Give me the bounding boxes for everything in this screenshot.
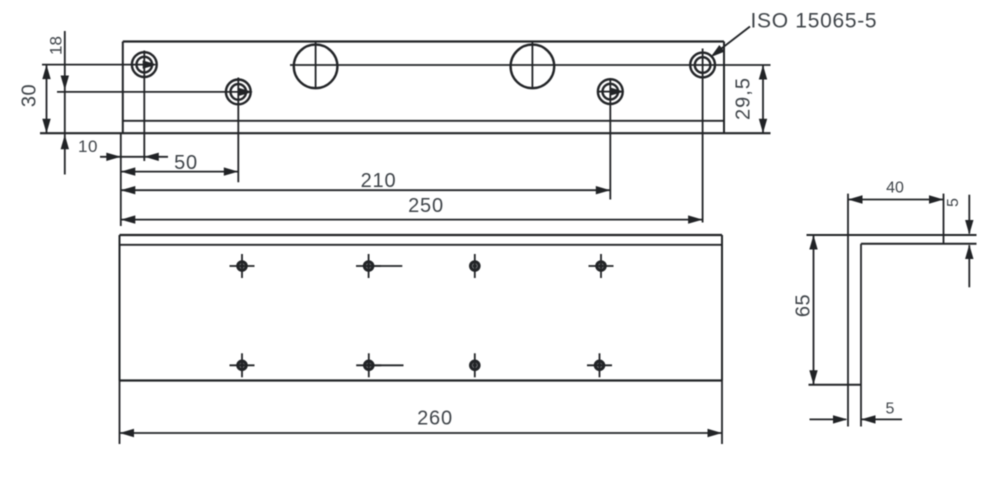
flange bottom line <box>861 243 977 245</box>
flange end vertical <box>943 194 945 244</box>
big hole B2 <box>511 41 555 89</box>
svg-text:65: 65 <box>793 294 815 317</box>
dim 250 line <box>121 219 703 221</box>
hole row 2 leader line <box>57 91 239 93</box>
svg-text:260: 260 <box>417 408 453 430</box>
svg-text:50: 50 <box>174 152 198 174</box>
hole row 2 leader arrow <box>238 88 253 96</box>
svg-text:10: 10 <box>78 137 98 156</box>
svg-text:5: 5 <box>945 198 962 207</box>
dim 30 up arrow <box>42 65 50 80</box>
svg-text:210: 210 <box>361 170 397 192</box>
dim 65 line <box>813 235 815 385</box>
hole row 1 right line <box>290 64 771 66</box>
plate bend line <box>123 120 724 122</box>
cross C8 <box>587 353 612 377</box>
bottom view outline <box>120 234 723 236</box>
svg-text:29,5: 29,5 <box>733 77 755 120</box>
flange top line <box>807 234 977 236</box>
hole row 1 leader line <box>42 64 145 66</box>
plate right edge <box>723 42 725 134</box>
svg-text:18: 18 <box>46 36 65 55</box>
cross C3 <box>471 254 479 278</box>
cross C6 <box>356 353 403 377</box>
dim 40 line <box>848 199 944 201</box>
dim 10 line <box>100 156 168 158</box>
hole H4 <box>690 49 715 223</box>
dim 5 bottom <box>810 418 847 420</box>
dim 50 line <box>121 171 239 173</box>
leg bottom end <box>809 384 862 386</box>
big hole B1 <box>294 41 338 89</box>
svg-text:250: 250 <box>408 195 444 217</box>
cross C4 <box>589 254 614 278</box>
svg-text:ISO 15065-5: ISO 15065-5 <box>751 10 878 33</box>
leg outer line <box>847 194 849 427</box>
dim 30 line <box>46 65 48 134</box>
svg-text:5: 5 <box>886 401 895 418</box>
ISO leader line <box>713 27 750 56</box>
hole H1 <box>132 51 157 162</box>
dim 30 down arrow <box>42 119 50 134</box>
svg-text:30: 30 <box>19 84 41 107</box>
dim 10 arrows <box>106 153 121 161</box>
cross C1 <box>230 254 255 278</box>
hole H2 <box>226 78 251 183</box>
hole row 1 leader arrow <box>143 60 158 68</box>
dim 210 line <box>121 189 611 191</box>
dim 260 line <box>120 432 723 434</box>
cross C7 <box>471 353 479 377</box>
extension line for dim 18 <box>64 31 66 175</box>
extension lines below <box>119 381 121 445</box>
cross C5 <box>230 353 255 377</box>
leg inner line <box>860 244 862 427</box>
plate bottom edge (extended for dims) <box>40 132 771 134</box>
hole H3 <box>598 78 623 200</box>
hole H3 arrow <box>610 87 625 95</box>
svg-text:40: 40 <box>886 180 904 197</box>
plate top edge <box>123 40 724 42</box>
dim 18 down arrow <box>61 76 69 91</box>
dim 5 top <box>968 195 970 234</box>
extension line plate left edge <box>120 133 122 226</box>
cross C2 <box>356 254 402 278</box>
plate left edge <box>122 42 124 134</box>
dim 18 up arrow <box>61 135 69 150</box>
